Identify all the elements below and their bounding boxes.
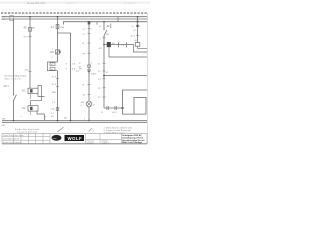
title block vertical c	[20, 134, 22, 144]
svg-text:-S2 1: -S2 1	[3, 85, 9, 88]
title block vertical i	[99, 134, 101, 144]
title block mid line 2	[2, 139, 50, 141]
switch S1 blade	[14, 95, 17, 101]
wire coil K3 bottom to right edge	[109, 47, 147, 57]
junction W3/bottom	[57, 120, 59, 122]
W5 tick e	[103, 96, 106, 98]
stub tick below K2	[30, 111, 32, 115]
W5 tick a	[103, 62, 106, 64]
logo box WOLF	[65, 135, 85, 141]
lamp H1 cross a	[87, 102, 91, 106]
svg-text:X1 1: X1 1	[24, 36, 29, 38]
plug X3 lower contact	[50, 67, 55, 70]
svg-text:-K1: -K1	[22, 89, 27, 93]
svg-text:-F1: -F1	[50, 25, 54, 29]
aux arrow mark	[110, 24, 112, 29]
coil K2 inner mark	[30, 107, 33, 110]
svg-text:Blatt 5 von 8 Anlage: Blatt 5 von 8 Anlage	[122, 141, 143, 144]
svg-text:10A: 10A	[60, 26, 64, 29]
wire riser to device box	[123, 108, 135, 114]
right riser wire	[123, 90, 148, 108]
svg-text:bmaa 604 223: bmaa 604 223	[27, 1, 45, 5]
pump M1 dark tick	[59, 51, 60, 53]
W8 tick b	[88, 42, 91, 44]
svg-text:Bei Bedarf Abgriff Spg.: Bei Bedarf Abgriff Spg.	[5, 75, 27, 78]
bottom rail N	[2, 119, 147, 121]
wire W3 lower	[57, 71, 59, 121]
dark dashed boundary line	[1, 12, 147, 14]
contactor coil K3 body	[107, 42, 111, 47]
title block vertical h	[85, 134, 87, 144]
W5 tick d	[103, 87, 106, 89]
svg-text:WOLF: WOLF	[68, 136, 83, 141]
connector bar b	[126, 42, 128, 47]
junction W6 rail3	[137, 21, 139, 23]
W8 bottom junction	[88, 120, 90, 122]
junction node W6/L1	[137, 16, 139, 18]
svg-text:Datum Name Gepr. Norm: Datum Name Gepr. Norm	[3, 134, 24, 137]
W6 dark contact square	[136, 25, 138, 27]
bottom rail PE	[2, 121, 147, 123]
plug X3 upper contact	[50, 63, 55, 66]
W5 tick b	[103, 70, 106, 72]
wire W1 lower	[13, 101, 15, 121]
svg-text:230V: 230V	[91, 73, 97, 75]
junction W4/bottom	[70, 120, 72, 122]
svg-text:X1 5: X1 5	[131, 35, 136, 37]
svg-text:TW: TW	[106, 34, 109, 36]
W8 tick a	[88, 33, 91, 35]
pump M1 circle	[56, 50, 60, 54]
title mid divider	[86, 138, 122, 140]
W5 tick c	[103, 78, 106, 80]
svg-text:3. Siehe Blatt 2 und 3: 3. Siehe Blatt 2 und 3	[104, 131, 126, 134]
junction node W2/L1	[29, 16, 31, 18]
svg-text:Seite 5: Seite 5	[66, 1, 75, 5]
logo oval	[52, 135, 62, 141]
title block vertical e	[35, 134, 37, 144]
device box right	[134, 98, 146, 115]
wire W5 branch right	[104, 75, 147, 77]
W8 end symbol 3	[88, 72, 89, 74]
svg-text:-K2: -K2	[22, 106, 27, 110]
stub on PE rail	[96, 22, 98, 25]
terminal blob X2 on rail	[88, 21, 91, 24]
lamp H1 cross b	[87, 102, 91, 106]
W8 cluster box	[88, 65, 91, 68]
svg-text:X1 4: X1 4	[52, 84, 57, 86]
power rail N	[2, 18, 147, 20]
plug X3 detour	[48, 62, 58, 71]
wire from K1 top right	[31, 86, 42, 106]
thermostat switch blade	[104, 30, 107, 36]
junction node right riser	[122, 107, 124, 109]
connector bar a	[118, 42, 120, 47]
fuse F1 body	[56, 25, 59, 29]
wire W1 vertical	[13, 19, 15, 95]
W8 end symbol	[87, 69, 91, 71]
relay coil K2 box	[28, 106, 38, 111]
W8 tick c	[88, 52, 91, 54]
branch wire to W4	[58, 32, 71, 34]
svg-text:= Blatt 5: = Blatt 5	[102, 141, 110, 144]
title block vertical j	[121, 134, 123, 144]
power rail L1	[2, 16, 147, 18]
contactor coil K4 body	[135, 43, 140, 47]
wire W6 vertical	[137, 17, 139, 43]
title block vertical d	[28, 134, 30, 144]
junction node W5/coil wire	[103, 44, 105, 46]
tick on W3 a	[56, 78, 59, 80]
W6 tick	[136, 34, 139, 36]
junction node W3/L1	[57, 16, 59, 18]
terminal tick on W2	[29, 35, 32, 37]
junction W5 branch	[103, 75, 105, 77]
title block vertical b	[13, 134, 15, 144]
svg-text:Ein Aus Stör Spann werk: Ein Aus Stör Spann werk	[15, 128, 40, 131]
light dashed separator line	[2, 9, 147, 11]
wire W8 vertical	[88, 22, 90, 102]
W2 tick	[29, 71, 32, 73]
title block vertical k	[146, 134, 148, 144]
svg-text:Bearb. Gepr. Ursprung: Bearb. Gepr. Ursprung	[3, 142, 21, 144]
title block bottom line	[2, 143, 147, 145]
W5 continues	[103, 36, 105, 108]
switch S1 dot b	[13, 100, 14, 101]
coil K4 wire to right edge	[138, 46, 148, 48]
title block vertical a	[1, 134, 3, 144]
rail PE partial	[64, 22, 148, 25]
contact bars b	[114, 106, 116, 110]
svg-text:14.17: 14.17	[112, 112, 118, 114]
svg-text:10.03 MW 05.03 EN: 10.03 MW 05.03 EN	[3, 138, 20, 140]
W8 end symbol 2	[88, 71, 91, 73]
pump M1 diagonal	[56, 50, 60, 53]
wire W5 vertical	[103, 22, 105, 31]
header band	[0, 1, 150, 3]
svg-text:-Y1: -Y1	[51, 108, 55, 111]
revision diagonal mark	[89, 128, 93, 131]
junction W1/bottom	[13, 120, 15, 122]
W8 tick e	[88, 93, 91, 95]
coil K1 inner mark	[30, 89, 33, 92]
W8 upper tick	[88, 28, 91, 30]
svg-text:a1: a1	[51, 64, 53, 66]
title block vertical f	[42, 134, 44, 144]
svg-text:(L): (L)	[76, 71, 79, 73]
relay coil K1 box	[28, 88, 38, 93]
svg-text:ein aus rot grün weiß: ein aus rot grün weiß	[17, 130, 38, 133]
stub link x118	[117, 17, 119, 22]
W8 tick d	[88, 83, 91, 85]
tick on W3 b	[56, 85, 59, 87]
revision slash mark	[58, 127, 64, 132]
right frame line	[146, 13, 148, 144]
stub tick below K1	[30, 94, 32, 99]
svg-text:Schema: Schema	[87, 142, 95, 144]
wire W2 vertical	[29, 17, 31, 89]
svg-text:10.03.04: 10.03.04	[124, 1, 135, 5]
fuse F2 body	[29, 27, 32, 31]
title block outer top line	[2, 133, 147, 135]
terminal box on rail L1	[10, 16, 14, 21]
wire W5 corner to right	[104, 107, 123, 109]
junction node W5/PE	[103, 21, 105, 23]
svg-text:Klem. 1 und 2 br.: Klem. 1 und 2 br.	[5, 78, 22, 81]
wire W4 vertical	[70, 33, 72, 121]
svg-text:X1 3: X1 3	[52, 76, 57, 78]
wire coil K3 to right edge upper	[111, 45, 147, 53]
contact bars a	[106, 106, 108, 110]
thermostat tick	[103, 37, 106, 39]
title block mid line 1	[2, 136, 50, 138]
wire from K1 bottom right	[38, 94, 45, 97]
svg-text:-M1: -M1	[50, 50, 55, 54]
switch S1 dot a	[13, 94, 14, 95]
solenoid Y1 mark	[56, 108, 59, 111]
svg-text:a2: a2	[51, 69, 53, 71]
wire from K2 bottom	[37, 111, 45, 120]
wire W3 vertical	[57, 17, 59, 62]
W8 lower segment	[88, 107, 90, 121]
title block vertical g	[49, 134, 51, 144]
lamp H1 circle	[86, 101, 92, 107]
wire to contactor coil	[104, 44, 107, 46]
